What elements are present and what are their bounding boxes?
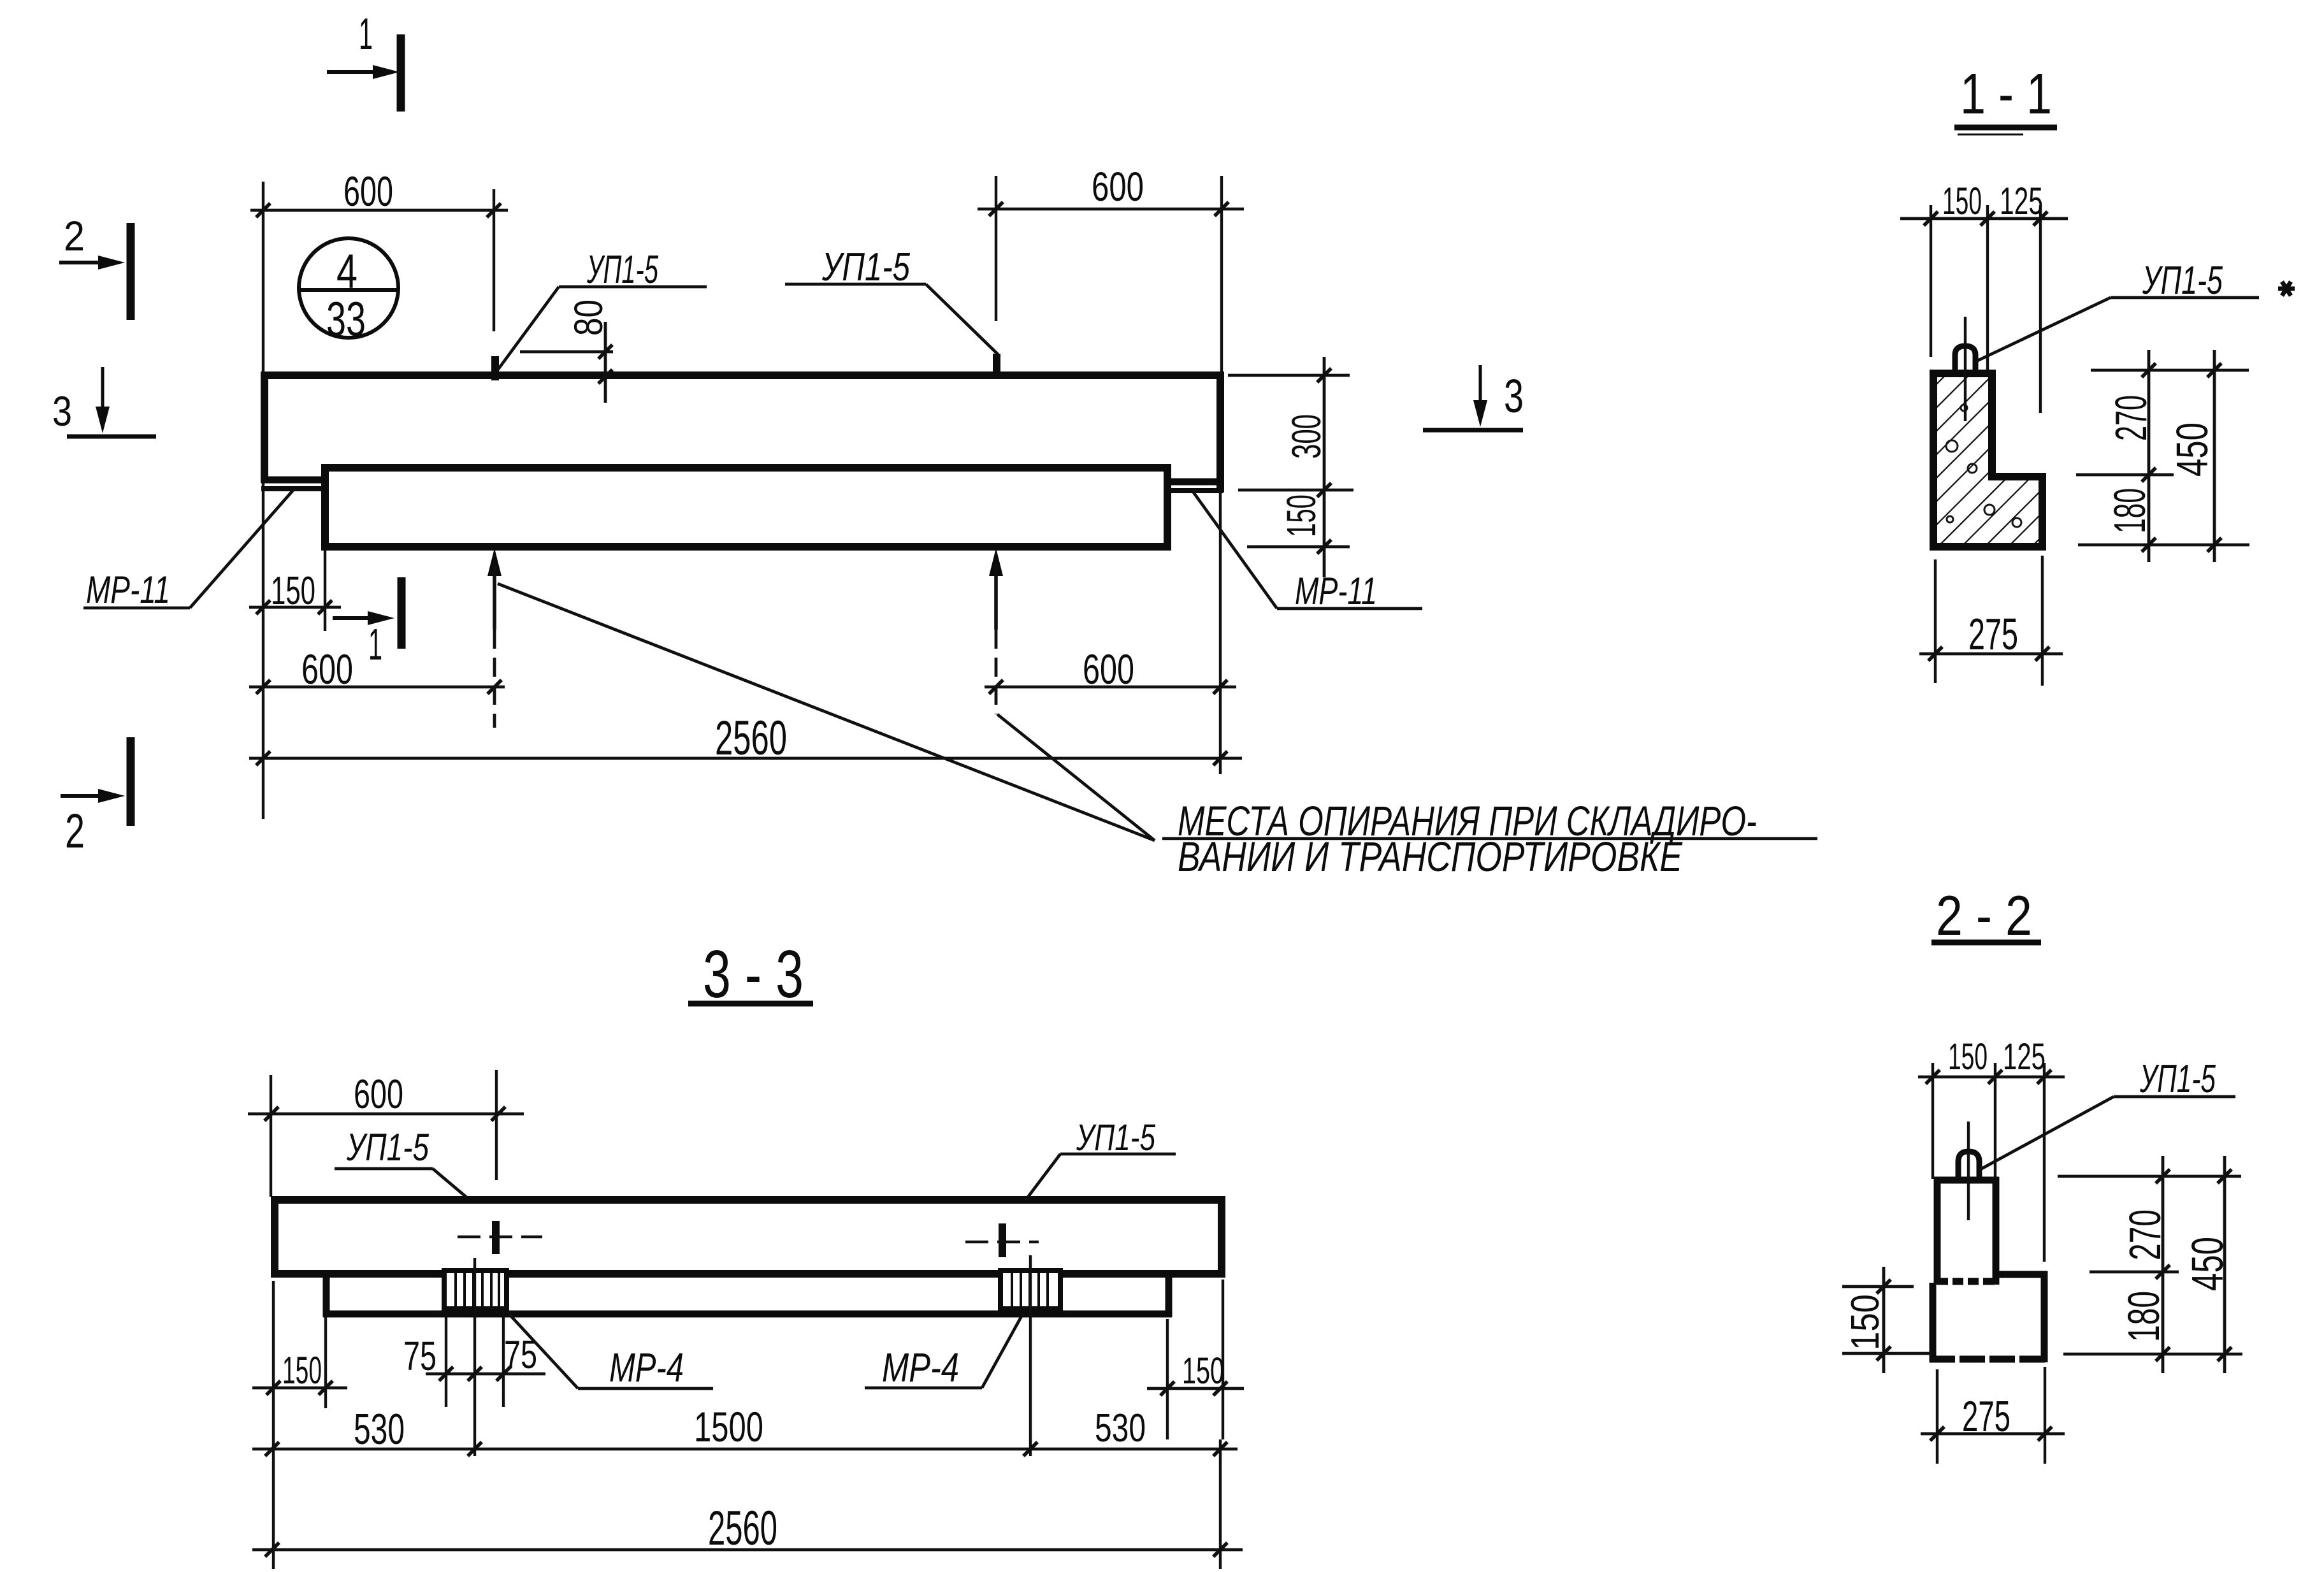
svg-text:2560: 2560 — [708, 1501, 777, 1555]
extension line x775 (left 600 right end) — [493, 189, 495, 331]
svg-text:1: 1 — [368, 619, 382, 669]
label МР-4 right leader — [982, 1314, 1023, 1388]
label УП1-5 left underline — [335, 1167, 433, 1171]
lower strip bottom edge — [323, 1311, 1172, 1318]
mark 2 lower-left: bar — [127, 737, 135, 826]
ext x745 plate centerline long — [473, 1258, 476, 1456]
svg-text:600: 600 — [354, 1071, 403, 1117]
MP-4 plate left hatch — [456, 1272, 499, 1308]
tick — [598, 345, 612, 359]
mid ext — [2089, 1271, 2179, 1274]
label УП1-5 right: underline — [785, 283, 926, 286]
svg-text:МР-11: МР-11 — [86, 568, 170, 611]
ext x1832 — [1166, 1319, 1169, 1439]
svg-text:80: 80 — [567, 299, 611, 336]
tick — [1160, 1381, 1174, 1395]
svg-text:4: 4 — [336, 245, 357, 299]
dim 150 left line — [249, 606, 341, 609]
tick — [318, 600, 332, 614]
left dim 150: vertical line — [1882, 1267, 1886, 1373]
beam bottom edge right segment — [1164, 479, 1223, 486]
ext line x3202 — [2039, 205, 2042, 413]
svg-text:150: 150 — [1278, 494, 1324, 537]
svg-text:275: 275 — [1962, 1392, 2010, 1441]
support arrow left shaft — [493, 564, 496, 630]
svg-text:300: 300 — [1283, 414, 1329, 459]
left dim ticks — [1877, 1280, 1891, 1294]
extension line x1563 (right 600 left end) — [995, 176, 997, 321]
dim line 275 — [1921, 1432, 2065, 1436]
svg-text:600: 600 — [1083, 645, 1134, 693]
beam right edge — [1216, 372, 1224, 492]
lifting loop right tick — [993, 354, 1000, 379]
tick — [2037, 1070, 2051, 1084]
svg-text:2: 2 — [65, 804, 85, 858]
svg-text:275: 275 — [1968, 609, 2018, 659]
tick — [1213, 1543, 1227, 1557]
svg-text:1500: 1500 — [694, 1403, 763, 1450]
svg-text:УП1-5: УП1-5 — [346, 1126, 429, 1169]
label УП1-5: underline — [2111, 296, 2259, 299]
beam left edge — [261, 372, 268, 483]
bottom ext — [2078, 544, 2249, 547]
ticks — [265, 1442, 1227, 1456]
tick — [265, 1543, 279, 1557]
beam body — [275, 1200, 1222, 1274]
mark 1 bottom: arrow shaft — [333, 616, 382, 620]
left dim bottom ext — [1842, 1352, 1932, 1355]
svg-text:150: 150 — [271, 569, 315, 613]
title underline — [688, 1001, 813, 1007]
mark 2 lower-left: arrow head — [98, 789, 125, 803]
svg-text:125: 125 — [2003, 1036, 2046, 1078]
bottom ext — [2063, 1353, 2242, 1356]
svg-text:530: 530 — [1095, 1406, 1146, 1450]
loop centerline — [1967, 1121, 1970, 1220]
tick — [491, 1107, 505, 1121]
support arrow right dashed — [995, 630, 998, 714]
dim 600 top-left line — [250, 209, 508, 212]
upper part left edge — [1934, 1177, 1941, 1285]
svg-text:ВАНИИ И ТРАНСПОРТИРОВКЕ: ВАНИИ И ТРАНСПОРТИРОВКЕ — [1178, 833, 1683, 880]
svg-text:180: 180 — [2105, 488, 2154, 533]
ext x1620 plate centerline long — [1029, 1255, 1032, 1456]
dim 75/75: line — [426, 1373, 545, 1376]
lifting loop — [1958, 1151, 1979, 1181]
bottom ext — [1247, 545, 1350, 549]
mark 1 bottom: bar — [398, 577, 406, 649]
tick — [487, 203, 501, 217]
label УП1-5: leader — [1981, 1097, 2114, 1169]
dim line 275 — [1919, 653, 2063, 656]
tick — [1926, 1070, 1940, 1084]
label МР-11 left underline — [83, 607, 190, 610]
dim 600 bottom-right line — [985, 686, 1236, 689]
loop centerline dash right — [965, 1241, 1039, 1243]
loop centerline — [1964, 317, 1967, 421]
MP-4 plate left — [444, 1271, 507, 1309]
beam bottom edge left segment — [261, 477, 329, 484]
svg-text:125: 125 — [2000, 180, 2043, 222]
mark 3 left: arrow head — [96, 407, 110, 433]
title underline thin — [1958, 134, 2023, 136]
leader from right support to text — [997, 714, 1155, 840]
ext x1915 long right — [1219, 1439, 1222, 1569]
tick — [1213, 1381, 1227, 1395]
mark 2 lower-left: arrow shaft — [61, 794, 113, 798]
mark 3 right: arrow shaft — [1479, 365, 1482, 411]
ext vertical x3205 below — [2041, 556, 2044, 686]
dim 600 top-right line — [978, 208, 1244, 211]
svg-text:150: 150 — [1942, 180, 1982, 222]
dim 150 left: line — [252, 1387, 347, 1390]
dim line 150/125 — [1918, 1076, 2065, 1079]
svg-text:УП1-5: УП1-5 — [2139, 1057, 2216, 1101]
tick — [266, 1381, 280, 1395]
tick — [1928, 647, 1942, 661]
upper part bottom bearing edge (dashed) — [1937, 1278, 1996, 1285]
ext x1919 — [1222, 1280, 1224, 1439]
ext line x3131 — [1994, 1063, 1996, 1269]
label МР-11 right underline — [1277, 607, 1422, 610]
svg-text:150: 150 — [1948, 1036, 1988, 1078]
tick — [598, 370, 612, 384]
MP-4 plate right — [1000, 1271, 1060, 1309]
dim 600 line — [248, 1113, 524, 1116]
mark 1 top: arrow head — [373, 65, 400, 79]
svg-text:75: 75 — [403, 1333, 437, 1379]
label УП1-5: underline — [2114, 1095, 2235, 1099]
ticks right dims — [2156, 1169, 2232, 1361]
tick — [1930, 1427, 1944, 1441]
ext x790 — [502, 1311, 505, 1407]
tick — [256, 680, 270, 694]
lower part top edge right — [1996, 1271, 2047, 1278]
svg-text:3 - 3: 3 - 3 — [703, 937, 804, 1012]
tick — [1213, 751, 1227, 765]
mid ext — [2076, 473, 2174, 477]
title underline — [1931, 940, 2041, 946]
beam top edge — [261, 371, 1224, 379]
label УП1-5 right: leader — [926, 284, 998, 354]
svg-text:МР-4: МР-4 — [609, 1345, 684, 1390]
note underline — [1162, 837, 1817, 840]
dim line 270/180 vertical — [2147, 350, 2151, 562]
dim 600 bottom-left line — [249, 686, 505, 689]
upper part of section: fill — [1937, 1180, 1996, 1283]
vertical dim line — [1323, 357, 1326, 577]
tick — [319, 1381, 333, 1395]
tick — [256, 203, 270, 217]
svg-text:1: 1 — [359, 9, 373, 59]
dim 2560: line — [252, 1548, 1243, 1552]
tick — [989, 202, 1003, 216]
ticks — [439, 1367, 510, 1381]
tick — [487, 680, 502, 694]
tick — [2033, 212, 2047, 226]
ticks right dims — [2142, 363, 2221, 552]
mark 3 right: bar — [1423, 428, 1523, 433]
svg-text:180: 180 — [2119, 1291, 2169, 1342]
svg-text:150: 150 — [1844, 1294, 1887, 1350]
loop tick right — [999, 1223, 1006, 1257]
support arrow right shaft — [994, 564, 998, 630]
svg-text:270: 270 — [2120, 1209, 2170, 1260]
svg-text:3: 3 — [52, 387, 72, 435]
mark 3 left: arrow shaft — [101, 367, 105, 417]
right dims: top ext — [2058, 1175, 2241, 1178]
label МР-4 left leader — [507, 1311, 578, 1388]
ext line x3208 — [2043, 1063, 2046, 1262]
tick — [256, 600, 270, 614]
svg-text:1 - 1: 1 - 1 — [1960, 62, 2052, 126]
upper part right edge — [1993, 1177, 2000, 1285]
ext line x3030 — [1930, 205, 1932, 357]
tick — [2038, 1427, 2052, 1441]
svg-text:530: 530 — [354, 1405, 405, 1453]
tick — [1924, 212, 1938, 226]
ext x511 — [324, 1317, 327, 1408]
extension line x1915 below beam — [1219, 491, 1222, 774]
label УП1-5: leader — [1975, 298, 2111, 362]
svg-text:УП1-5: УП1-5 — [821, 245, 910, 289]
dim 80: vertical line — [604, 322, 607, 403]
svg-text:600: 600 — [343, 168, 393, 215]
label УП1-5 right leader — [1006, 1154, 1060, 1227]
ext line x425 above — [270, 1075, 272, 1197]
lifting loop left tick — [491, 356, 499, 380]
label МР-4 left underline — [578, 1387, 713, 1390]
asterisk mark — [2278, 282, 2295, 296]
mark 3 left: bar — [67, 435, 156, 439]
tick — [989, 680, 1003, 694]
mark 2 upper-left: arrow shaft — [59, 261, 113, 264]
right dims: top ext — [2091, 369, 2249, 372]
lower part right edge — [2041, 1271, 2048, 1362]
tick — [1988, 1070, 2002, 1084]
tick — [264, 1107, 278, 1121]
label МР-11 left leader — [190, 489, 294, 608]
loop tick left — [492, 1221, 500, 1254]
ext line x3033 — [1931, 1063, 1934, 1179]
svg-text:33: 33 — [326, 292, 366, 347]
extension line x1917 above beam — [1220, 176, 1223, 375]
L-shaped hatched section body — [1933, 373, 2042, 547]
lower strip right edge — [1166, 1274, 1173, 1317]
dim 150 right: line — [1147, 1387, 1244, 1390]
ext vertical x3040 below — [1936, 1369, 1938, 1464]
ticks — [1317, 368, 1331, 554]
aggregate dots in section — [1946, 405, 2021, 527]
tick — [1981, 212, 1995, 226]
lower rib rect — [325, 468, 1167, 547]
extension line x510 below ledge — [324, 549, 326, 631]
dim 2560 line — [249, 757, 1242, 760]
dim 80: horizontal segment — [520, 350, 613, 354]
label УП1-5 left: leader — [497, 287, 559, 371]
tick — [1213, 680, 1227, 694]
mark 1 bottom: arrow head — [368, 611, 394, 625]
left dim top ext — [1842, 1285, 1914, 1288]
mid ext — [1238, 489, 1353, 492]
lower part bottom edge — [1930, 1356, 2047, 1363]
svg-text:600: 600 — [301, 645, 353, 693]
label МР-11 right leader — [1192, 491, 1277, 609]
svg-text:2 - 2: 2 - 2 — [1936, 884, 2032, 947]
dim line 150/125 — [1900, 217, 2068, 220]
plate MP-11 right underline — [1164, 488, 1223, 493]
ext line x779 above — [495, 1070, 498, 1180]
loop centerline dash left — [458, 1236, 542, 1238]
MP-4 plate right hatch — [1012, 1272, 1048, 1308]
ext x700 — [445, 1314, 447, 1407]
lifting loop (УП1-5) — [1955, 346, 1975, 375]
svg-text:2: 2 — [64, 212, 85, 259]
ext vertical x3037 below — [1934, 559, 1937, 683]
tick — [1215, 202, 1229, 216]
svg-text:270: 270 — [2106, 395, 2156, 441]
ext x429 long left — [272, 1281, 275, 1569]
mark 2 upper-left: arrow head — [98, 256, 125, 270]
mark 2 upper-left: bar — [127, 223, 135, 320]
extension line left x413 — [262, 182, 264, 819]
support arrow left dashed — [493, 630, 496, 728]
mark 1 top: bar — [397, 34, 405, 112]
mark 3 right: arrow head — [1473, 400, 1487, 427]
svg-text:МР-4: МР-4 — [882, 1345, 959, 1390]
title underline — [1954, 125, 2057, 131]
svg-text:3: 3 — [1504, 370, 1524, 422]
circle diameter line — [299, 288, 398, 292]
lower strip left edge — [323, 1274, 330, 1317]
svg-text:2560: 2560 — [715, 711, 787, 765]
svg-text:УП1-5: УП1-5 — [1076, 1117, 1155, 1158]
svg-text:УП1-5: УП1-5 — [586, 248, 658, 292]
svg-text:150: 150 — [282, 1349, 322, 1392]
leader from left support to text — [498, 584, 1155, 840]
lower part left edge — [1930, 1283, 1937, 1362]
svg-text:450: 450 — [2167, 422, 2217, 477]
dim line 270/180 vertical — [2162, 1156, 2165, 1373]
ext line x3119 — [1986, 205, 1989, 410]
svg-text:450: 450 — [2183, 1237, 2232, 1291]
support arrow right head — [989, 548, 1003, 576]
svg-text:МР-11: МР-11 — [1295, 570, 1377, 612]
circle mark 4/33 — [299, 238, 398, 338]
upper part top edge — [1934, 1177, 1999, 1184]
mark 1 top: arrow shaft — [327, 70, 387, 74]
tick — [2035, 647, 2049, 661]
label УП1-5 left: underline — [559, 285, 707, 289]
dim line 450 vertical — [2223, 1156, 2227, 1373]
dim line 450 vertical — [2213, 350, 2216, 562]
label УП1-5 right underline — [1060, 1153, 1176, 1156]
label МР-4 right underline — [865, 1387, 982, 1390]
beam body fill — [264, 375, 1220, 481]
dim 300/150 right side: top ext — [1228, 374, 1350, 377]
ext vertical x3209 below — [2044, 1367, 2046, 1464]
tick — [256, 751, 270, 765]
dim 530/1500/530: line — [252, 1448, 1238, 1451]
label УП1-5 left leader — [433, 1169, 494, 1221]
plate MP-11 left underline — [261, 486, 329, 491]
svg-text:600: 600 — [1092, 164, 1144, 210]
support arrow left head — [487, 548, 502, 576]
svg-text:150: 150 — [1182, 1350, 1224, 1392]
